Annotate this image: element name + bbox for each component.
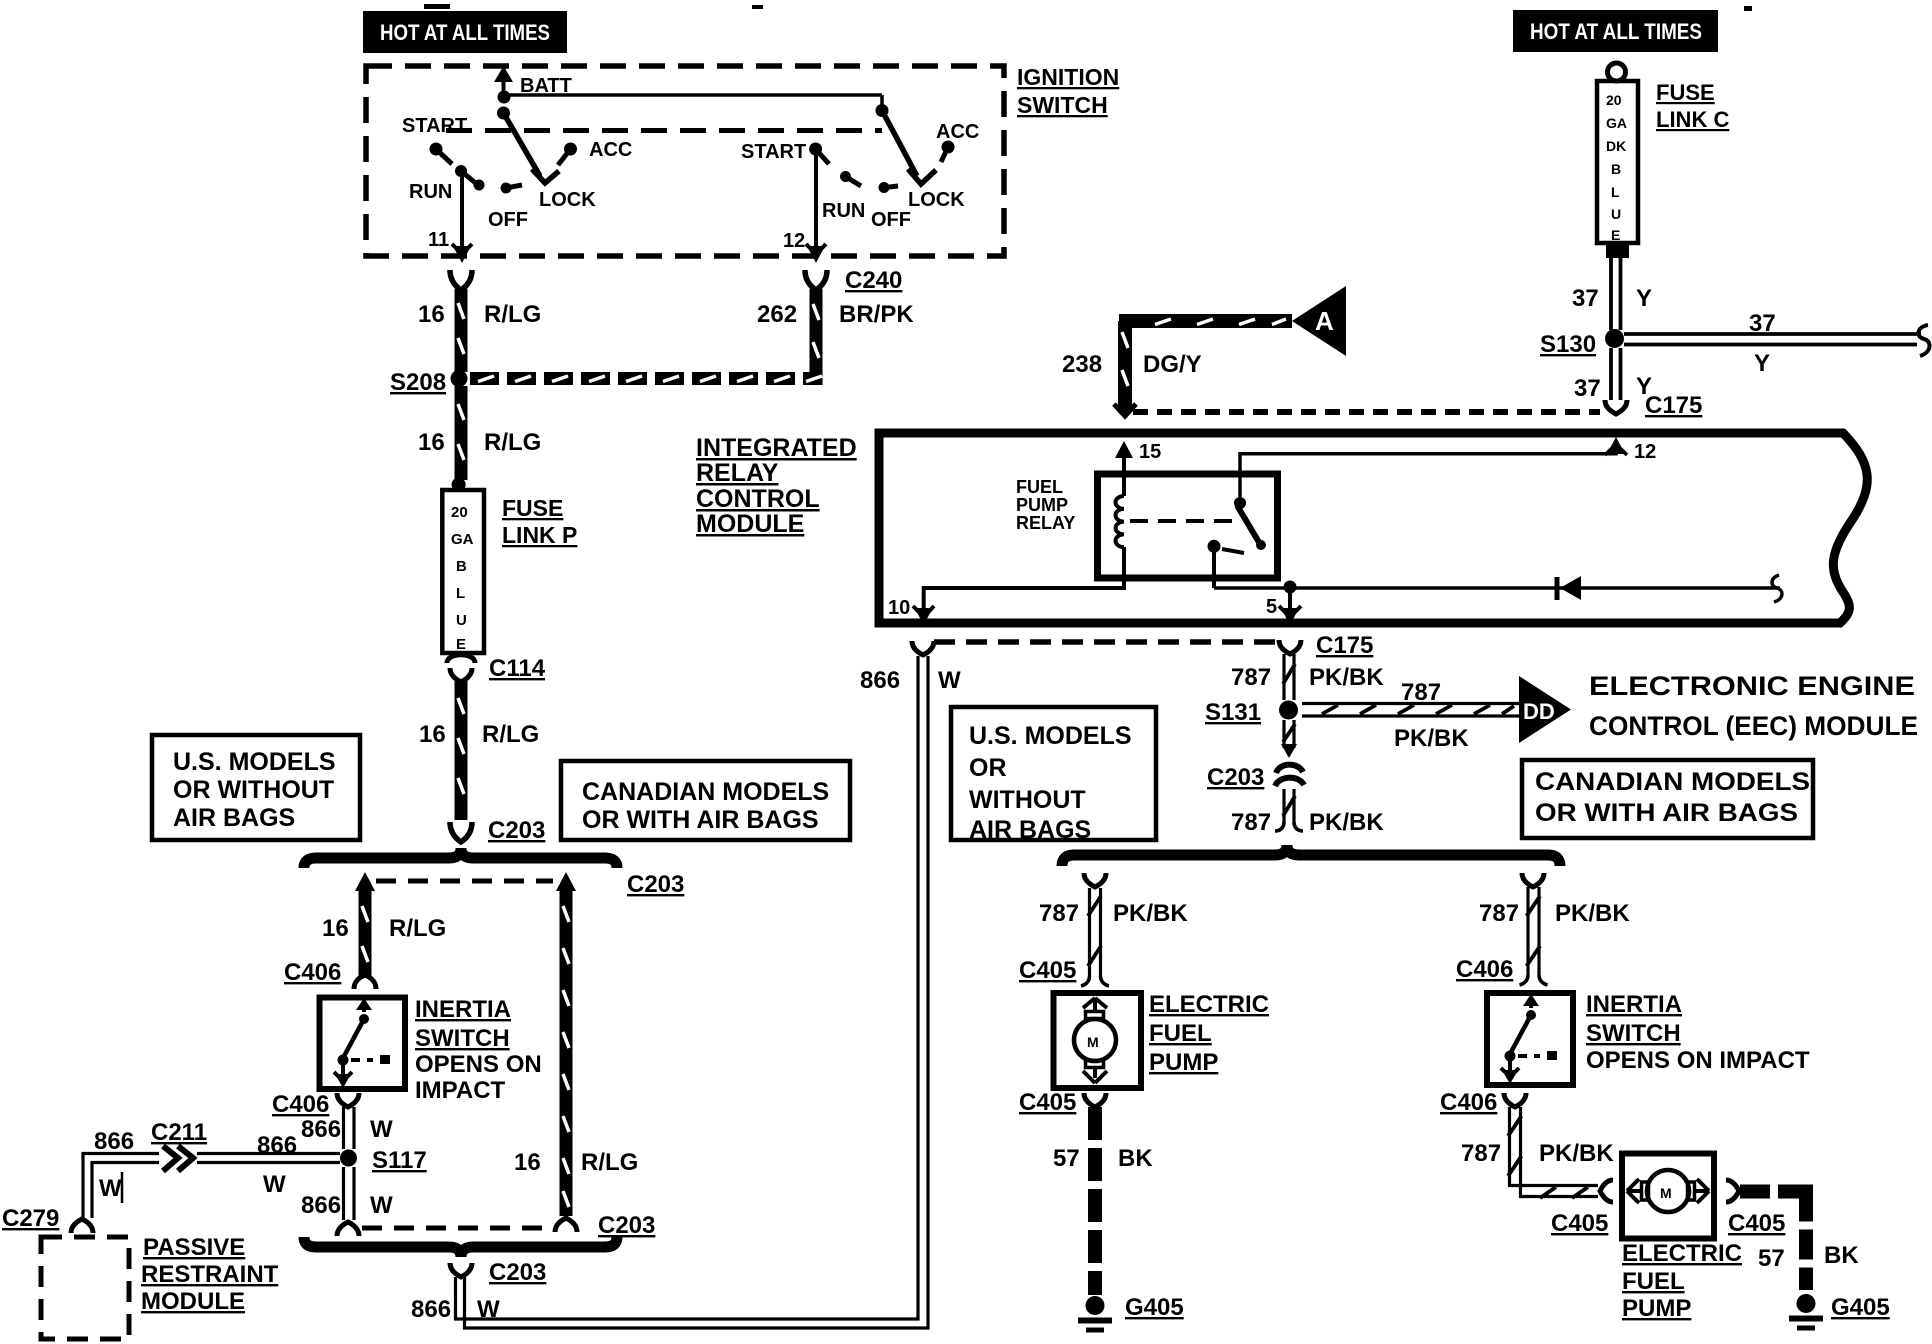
svg-text:S208: S208 [390,369,446,396]
svg-text:CONTROL: CONTROL [696,485,820,513]
fuse link C [1597,80,1729,258]
ignition switch label [1017,64,1119,118]
fuel pump relay label [1016,477,1075,533]
wire 787 PK/BK (Canadian branch) [1479,887,1630,975]
svg-text:E: E [1611,227,1620,243]
relay fixed contact and lead to pin 12 [1234,437,1656,509]
svg-text:866: 866 [301,1116,341,1143]
svg-text:866: 866 [94,1128,134,1155]
svg-text:L: L [456,585,465,602]
svg-text:RUN: RUN [409,181,452,203]
svg-text:CONTROL (EEC) MODULE: CONTROL (EEC) MODULE [1589,711,1918,741]
svg-text:PK/BK: PK/BK [1539,1140,1614,1167]
connector C175 fork (top right) [1605,392,1702,419]
wire 37 Y (S130 to right edge) [1624,310,1930,377]
svg-text:INERTIA: INERTIA [415,996,511,1023]
wire 37 Y (fuse link C to S130) [1572,258,1652,330]
squiggle end inside module [1772,575,1782,602]
node BATT junction dots [498,91,511,104]
svg-text:BR/PK: BR/PK [839,301,914,328]
connector C405 fork left of right pump [1551,1180,1613,1237]
svg-text:Y: Y [1754,350,1770,377]
svg-text:DK: DK [1606,138,1626,154]
svg-text:37: 37 [1574,375,1601,402]
label 866 far left and W [94,1128,134,1203]
svg-text:PUMP: PUMP [1622,1295,1691,1322]
wire pole to diode and squiggle [1214,586,1780,590]
svg-text:C211: C211 [151,1119,207,1146]
fork at top of Canadian branch [1522,873,1544,887]
electric fuel pump box (left) [1054,993,1142,1088]
right ACC terminal [936,121,979,162]
right START terminal and pole to pin 12 [741,141,829,263]
svg-text:PASSIVE: PASSIVE [143,1234,245,1261]
svg-text:16: 16 [322,915,349,942]
svg-text:PK/BK: PK/BK [1309,664,1384,691]
svg-text:C406: C406 [1456,956,1513,983]
svg-text:RELAY: RELAY [696,459,779,487]
wire 238 DG/Y [1062,319,1292,416]
svg-text:BK: BK [1118,1145,1153,1172]
svg-text:37: 37 [1572,285,1599,312]
diode [1557,576,1581,600]
wire 16 R/LG (C114 to C203) [419,681,539,820]
svg-text:B: B [456,558,467,575]
svg-text:C279: C279 [2,1205,59,1232]
svg-text:FUSE: FUSE [1656,80,1715,105]
circuit tag triangle A [1292,286,1346,356]
connector C203 brace (bottom of airbag loop) [304,1237,617,1257]
relay coil lead to pin 10 [924,547,1124,614]
svg-text:20: 20 [451,504,468,521]
svg-text:U: U [456,612,467,629]
pin 5 arrow [1266,588,1301,625]
node S117 [340,1147,427,1174]
svg-text:16: 16 [418,429,445,456]
svg-text:ELECTRIC: ELECTRIC [1149,991,1269,1018]
svg-text:INERTIA: INERTIA [1586,991,1682,1018]
svg-text:RESTRAINT: RESTRAINT [141,1261,279,1288]
svg-text:AIR BAGS: AIR BAGS [173,804,295,832]
svg-text:11: 11 [428,229,449,251]
node S131 [1205,699,1298,726]
connector C175 fork under pin 5 [1279,632,1373,659]
connector fork under module pin 10 [860,641,961,694]
svg-text:GA: GA [1606,115,1627,131]
svg-text:B: B [1611,161,1621,177]
svg-text:PUMP: PUMP [1016,495,1068,515]
svg-text:866: 866 [860,667,900,694]
electric fuel pump text (left) [1149,991,1269,1076]
svg-text:LOCK: LOCK [539,189,596,211]
fuel pump relay box [1098,474,1278,578]
svg-text:S131: S131 [1205,699,1261,726]
inertia switch box (left) [320,998,406,1090]
svg-text:W: W [477,1296,500,1323]
connector C405 fork right of right pump [1726,1180,1785,1237]
svg-text:57: 57 [1053,1145,1080,1172]
svg-text:U.S. MODELS: U.S. MODELS [173,748,336,776]
svg-text:C406: C406 [272,1091,329,1118]
svg-text:C405: C405 [1019,957,1076,984]
wire 866 W (C203 to relay module pin 10 run) [411,656,928,1328]
passive restraint module text [141,1234,279,1315]
svg-text:W: W [263,1171,286,1198]
svg-text:WITHOUT: WITHOUT [969,786,1086,814]
left RUN contact and pole to pin 11 [409,165,485,263]
fork at top of US branch [1084,873,1106,887]
ignition switch internal dashed line [446,128,882,133]
svg-text:AIR BAGS: AIR BAGS [969,816,1091,844]
svg-text:PUMP: PUMP [1149,1049,1218,1076]
scan artifact marks at top edge [424,4,1752,11]
svg-text:15: 15 [1139,441,1161,463]
electric fuel pump box (right) [1622,1154,1714,1239]
svg-text:OPENS ON IMPACT: OPENS ON IMPACT [1586,1047,1810,1074]
svg-text:OPENS ON: OPENS ON [415,1051,542,1078]
svg-text:MODULE: MODULE [141,1288,245,1315]
svg-text:INTEGRATED: INTEGRATED [696,434,857,462]
svg-text:OFF: OFF [871,209,911,231]
connector C203 fork at bottom of right branch [555,1218,577,1232]
svg-text:OR WITH AIR BAGS: OR WITH AIR BAGS [1535,799,1798,827]
svg-text:W: W [938,667,961,694]
svg-text:866: 866 [411,1296,451,1323]
svg-text:R/LG: R/LG [482,721,539,748]
svg-text:787: 787 [1039,900,1079,927]
connector C203 brace (top of airbag loop) [304,848,617,868]
ground G405 (right) [1789,1294,1890,1328]
svg-text:16: 16 [419,721,446,748]
svg-text:PK/BK: PK/BK [1394,725,1469,752]
dashed top link of loop [376,879,553,884]
node S208 [390,369,468,396]
svg-text:LINK C: LINK C [1656,107,1729,132]
svg-text:20: 20 [1606,92,1622,108]
fuse link P [442,478,577,653]
svg-text:OFF: OFF [488,209,528,231]
connector C114 [447,655,546,682]
svg-text:12: 12 [1634,441,1656,463]
connector C405 above left pump [1019,957,1109,986]
svg-text:HOT AT ALL TIMES: HOT AT ALL TIMES [1530,19,1702,44]
svg-text:57: 57 [1758,1245,1785,1272]
svg-text:787: 787 [1231,664,1271,691]
svg-text:C203: C203 [598,1212,655,1239]
svg-text:SWITCH: SWITCH [415,1025,510,1052]
brace for right group (C175 split) [1062,845,1560,866]
svg-text:L: L [1611,184,1620,200]
right OFF contact [871,182,911,231]
dashed wire from 238 corner to C175 [1133,409,1600,415]
svg-text:G405: G405 [1125,1294,1184,1321]
Canadian models callout box (right) [1522,760,1813,838]
svg-text:16: 16 [418,301,445,328]
pin 10 arrow [888,597,934,625]
svg-text:IGNITION: IGNITION [1017,64,1119,90]
BATT terminal arrow [494,66,572,97]
wire BATT feed to right switch [504,93,882,97]
svg-text:W: W [370,1116,393,1143]
connector C203 fork above brace [450,817,545,844]
pin 15 arrow and lead [1115,441,1161,496]
svg-text:FUEL: FUEL [1149,1020,1212,1047]
integrated relay control module label [696,434,857,538]
left switch blade from BATT [504,113,541,176]
inertia switch text (left) [415,996,542,1104]
wire 866 W (S117 to C211 horizontal) [83,1132,340,1220]
connector C203 (inline arcs) [1207,764,1304,791]
svg-text:BK: BK [1824,1242,1859,1269]
svg-text:12: 12 [783,230,805,252]
right RUN contact [822,171,865,222]
svg-text:C114: C114 [489,655,546,682]
svg-text:ACC: ACC [936,121,979,143]
svg-text:OR WITHOUT: OR WITHOUT [173,776,334,804]
svg-text:PK/BK: PK/BK [1113,900,1188,927]
svg-text:S130: S130 [1540,331,1596,358]
wire S208 jumper (dashed hatched) [470,376,822,382]
left START terminal [402,115,467,164]
svg-text:RUN: RUN [822,200,865,222]
svg-text:C203: C203 [627,871,684,898]
svg-text:ACC: ACC [589,139,632,161]
svg-text:SWITCH: SWITCH [1586,1020,1681,1047]
left OFF contact [488,183,528,232]
svg-text:START: START [741,141,806,163]
relay blade [1222,507,1266,553]
wire 262 BR/PK [757,289,914,385]
wire 787 PK/BK (inertia to right pump) [1461,1107,1614,1198]
svg-text:16: 16 [514,1149,541,1176]
svg-text:START: START [402,115,467,137]
connector C406 fork below inertia switch [272,1091,359,1118]
svg-text:A: A [1315,306,1334,336]
wire 16 R/LG (right branch of loop) [514,872,638,1216]
svg-text:C405: C405 [1728,1210,1785,1237]
svg-text:R/LG: R/LG [389,915,446,942]
wire 37 Y (S130 to C175) [1574,348,1652,402]
svg-text:C203: C203 [489,1259,546,1286]
svg-text:ELECTRONIC ENGINE: ELECTRONIC ENGINE [1589,671,1915,701]
inertia switch box (right) [1487,993,1573,1085]
svg-text:Y: Y [1636,285,1652,312]
integrated relay control module outline [879,433,1867,623]
connector C406 above right inertia switch [1456,956,1548,985]
node junction above pin 5 [1284,581,1297,594]
svg-text:E: E [456,636,466,653]
svg-text:G405: G405 [1831,1294,1890,1321]
svg-text:DG/Y: DG/Y [1143,351,1202,378]
svg-text:U.S. MODELS: U.S. MODELS [969,722,1132,750]
svg-text:787: 787 [1461,1140,1501,1167]
svg-text:HOT AT ALL TIMES: HOT AT ALL TIMES [380,20,550,45]
wire 16 R/LG (left branch of loop) [322,872,446,976]
svg-text:OR: OR [969,754,1007,782]
relay actuating dashed link [1130,519,1238,523]
fuse link C terminal circle [1608,63,1626,81]
svg-text:W: W [370,1192,393,1219]
connector C211 chevrons [151,1119,207,1171]
svg-text:MODULE: MODULE [696,510,804,538]
wire 57 BK (left pump to ground) [1053,1107,1153,1295]
wire 787 PK/BK (US branch) [1039,888,1188,976]
svg-text:5: 5 [1266,596,1277,618]
inertia switch text (right) [1586,991,1810,1074]
circuit tag triangle DD [1519,676,1571,743]
hot at all times label (right) [1513,10,1718,52]
wire 16 R/LG (pin11 to S208) [418,289,541,372]
wire 787 PK/BK (C203 to brace) [1231,789,1384,836]
relay pole and lead to pin 5 [1208,540,1221,588]
svg-text:C203: C203 [488,817,545,844]
svg-text:866: 866 [301,1192,341,1219]
wire 866 W (C406 to S117) [301,1107,393,1149]
svg-text:R/LG: R/LG [484,301,541,328]
svg-text:C175: C175 [1316,632,1373,659]
svg-text:R/LG: R/LG [484,429,541,456]
svg-text:R/LG: R/LG [581,1149,638,1176]
wire 787 PK/BK (S131 to EEC) [1302,679,1519,752]
relay coil [1116,496,1125,547]
svg-text:C406: C406 [284,959,341,986]
wire 787 PK/BK (C175 to S131) [1231,654,1384,700]
svg-text:OR WITH AIR BAGS: OR WITH AIR BAGS [582,806,819,834]
svg-text:787: 787 [1401,679,1441,706]
svg-text:CANADIAN MODELS: CANADIAN MODELS [582,778,829,806]
electric fuel pump text (right) [1622,1240,1742,1322]
connector fork under pin 11 [450,270,472,290]
wire 866 W (S117 to C203 bottom) [301,1167,393,1236]
passive restraint module dashed box [41,1237,129,1339]
ignition switch dashed box [366,66,1004,256]
svg-text:DD: DD [1523,699,1555,724]
svg-text:ELECTRIC: ELECTRIC [1622,1240,1742,1267]
connector C405 below left pump [1019,1089,1106,1116]
svg-text:IMPACT: IMPACT [415,1077,506,1104]
svg-text:262: 262 [757,301,797,328]
svg-text:C240: C240 [845,267,902,294]
svg-text:787: 787 [1479,900,1519,927]
svg-text:C406: C406 [1440,1089,1497,1116]
svg-text:10: 10 [888,597,910,619]
right switch blade [882,111,917,177]
connector C406 below right inertia switch [1440,1089,1526,1116]
svg-text:RELAY: RELAY [1016,513,1075,533]
svg-text:C405: C405 [1551,1210,1608,1237]
svg-text:PK/BK: PK/BK [1555,900,1630,927]
svg-text:LOCK: LOCK [908,189,965,211]
hot at all times label (left) [363,11,567,53]
svg-text:787: 787 [1231,809,1271,836]
left ACC terminal [558,139,632,165]
svg-text:866: 866 [257,1132,297,1159]
svg-text:GA: GA [451,531,474,548]
svg-text:PK/BK: PK/BK [1309,809,1384,836]
dashed wire below module (pin10 to C175) [934,639,1278,645]
svg-text:W: W [99,1175,122,1202]
svg-text:S117: S117 [372,1147,427,1174]
EEC module label [1589,671,1918,741]
wire 787 (S131 down) with arrow [1281,720,1297,758]
connector C279 fork [2,1205,93,1233]
svg-text:M: M [1087,1034,1099,1050]
svg-text:SWITCH: SWITCH [1017,92,1108,118]
dashed bottom link of loop [362,1226,552,1231]
svg-text:37: 37 [1749,310,1776,337]
svg-text:C175: C175 [1645,392,1702,419]
svg-text:M: M [1660,1185,1672,1201]
connector C240 fork under pin 12 [805,267,902,294]
svg-text:FUSE: FUSE [502,495,563,521]
wire 16 R/LG (S208 to fuse link P) [418,386,541,480]
svg-text:C203: C203 [1207,764,1264,791]
svg-text:LINK P: LINK P [502,522,577,548]
US models callout box (left) [152,735,360,840]
svg-text:C405: C405 [1019,1089,1076,1116]
svg-text:238: 238 [1062,351,1102,378]
US models callout box (right) [951,707,1156,844]
svg-text:FUEL: FUEL [1016,477,1063,497]
connector C406 fork above inertia switch [284,959,376,989]
connector C203 fork below bottom brace [450,1259,546,1286]
Canadian models callout box (left) [561,761,850,840]
node S130 [1540,329,1624,358]
svg-text:CANADIAN MODELS: CANADIAN MODELS [1535,768,1810,796]
wire 57 BK (right pump to ground) [1740,1185,1859,1291]
svg-text:FUEL: FUEL [1622,1268,1685,1295]
ground G405 (left) [1078,1294,1184,1330]
right switch feed corner and dot [880,95,884,110]
svg-text:U: U [1611,206,1621,222]
